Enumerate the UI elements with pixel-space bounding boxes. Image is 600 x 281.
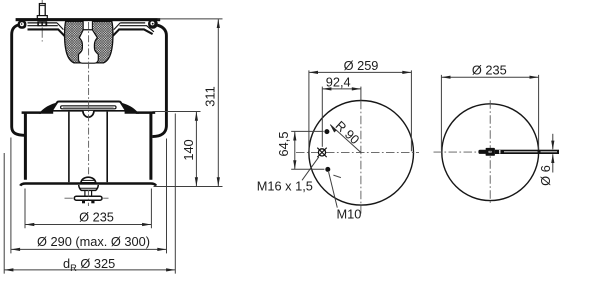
air fitting stud body	[39, 4, 45, 16]
piston top shoulder left	[22, 111, 41, 114]
piston bottom with end curls	[20, 184, 156, 186]
horizontal center line	[296, 151, 419, 153]
vertical center line	[489, 100, 491, 204]
boss slot center	[489, 151, 490, 152]
boss white slot	[489, 151, 492, 153]
svg-text:M10: M10	[337, 206, 362, 221]
arrow dR325 left	[4, 268, 13, 271]
dim line 140	[195, 112, 197, 187]
piston wall right	[149, 113, 152, 180]
dim line dia235 right view	[442, 76, 539, 78]
arrow 311 top	[217, 19, 220, 28]
bellows outer wall left	[12, 25, 26, 136]
rubber bumper (cross-hatched)	[65, 22, 113, 63]
bottom washer	[74, 196, 102, 200]
right bead of top plate	[148, 19, 158, 29]
stud nut below plate	[37, 21, 47, 26]
arrow dia290 right	[157, 248, 166, 251]
clamp ring upper line right	[120, 22, 145, 24]
bellows clamp wedge right	[120, 102, 139, 113]
svg-text:M16 x 1,5: M16 x 1,5	[257, 179, 313, 194]
arrow dia235 rv left	[441, 76, 450, 79]
right bead highlight	[150, 21, 154, 25]
arrow dia235 left	[25, 223, 34, 226]
dim line 64,5	[294, 132, 296, 170]
rod thread tick	[499, 150, 500, 154]
arrow 92,4 right	[352, 87, 361, 90]
ext lines 64,5	[291, 131, 324, 169]
piston inner column right	[106, 112, 108, 183]
arrow dR325 right	[166, 268, 175, 271]
dim line dia6 lower	[552, 154, 554, 172]
arrow dia235 rv right	[530, 76, 539, 79]
ext line top (311)	[158, 18, 223, 20]
piston top circle	[309, 101, 414, 206]
clamp ring lower line left	[28, 25, 58, 27]
M16 cross arms	[317, 148, 326, 157]
left bead highlight	[20, 22, 24, 26]
ext lines dia259	[309, 70, 412, 151]
boss mid line	[80, 187, 98, 189]
arrow dia6 top	[551, 141, 554, 150]
svg-text:Ø 6: Ø 6	[538, 165, 553, 186]
svg-text:311: 311	[203, 86, 218, 106]
bottom boss	[79, 185, 99, 191]
arrow 64,5 bottom	[293, 160, 296, 169]
girdle bar left	[28, 29, 65, 36]
M16 port symbol circle	[318, 149, 325, 156]
arrow R90	[330, 124, 337, 132]
piston inner column left	[68, 112, 70, 183]
svg-text:Ø 290 (max. Ø 300): Ø 290 (max. Ø 300)	[37, 234, 150, 249]
dim line 311	[217, 19, 219, 186]
bumper top notch	[83, 21, 92, 30]
horizontal center line	[434, 151, 478, 153]
dim line dia6 upper	[552, 134, 554, 150]
arrow 140 top	[195, 112, 198, 121]
svg-text:140: 140	[181, 139, 196, 160]
R90 radius line	[330, 125, 361, 153]
center line of air-fitting stud	[41, 0, 43, 3]
ext line 92,4 right (center)	[360, 87, 362, 101]
piston cap slot	[61, 106, 116, 109]
washer feet	[82, 200, 85, 203]
ext lines dia235	[25, 189, 151, 229]
arrow dia290 left	[11, 248, 20, 251]
left bead of top plate	[18, 20, 27, 29]
clamp ring lower line right	[120, 26, 154, 32]
cap bottom line	[52, 110, 126, 112]
ext lines dia290	[11, 138, 167, 254]
bumper inner spool (white)	[79, 30, 99, 63]
stud between boss and washer	[85, 191, 92, 196]
washer centerline ticks	[65, 197, 109, 199]
arrow 92,4 left	[322, 87, 331, 90]
bellows clamp wedge left	[39, 102, 58, 113]
nut slot right	[43, 22, 46, 25]
vertical center line	[360, 101, 362, 214]
rod center boss	[486, 148, 495, 156]
rod thread shading	[504, 151, 557, 153]
arrow dia259 left	[309, 71, 318, 74]
bolt dome chord line	[81, 179, 95, 181]
arrow dia6 bottom	[551, 154, 554, 163]
svg-text:Ø 235: Ø 235	[79, 210, 114, 225]
top plate bar	[16, 18, 161, 21]
bellows outer wall right	[152, 25, 166, 136]
air rod stub left	[478, 150, 486, 154]
dim line dR325	[5, 269, 176, 271]
piston cap hat	[52, 102, 126, 111]
svg-text:Ø 259: Ø 259	[344, 58, 379, 73]
clamp diagonal right-to-bumper	[114, 23, 120, 30]
arrow dia235 right	[142, 223, 151, 226]
stud cap line	[39, 5, 45, 7]
leader M16	[302, 157, 319, 181]
svg-text:Ø 235: Ø 235	[472, 62, 507, 77]
dim line dia290	[11, 248, 166, 250]
dim line dia259	[309, 71, 411, 73]
ext line 92,4 left	[321, 87, 323, 147]
arrow dia259 right	[402, 71, 411, 74]
arrow 64,5 top	[293, 131, 296, 140]
stud flange	[37, 16, 47, 19]
M10 hole upper (dot)	[324, 129, 329, 134]
ext line bottom (140/311)	[154, 186, 223, 188]
M10 hole lower (dot)	[325, 167, 330, 172]
svg-text:92,4: 92,4	[326, 74, 351, 89]
arrow 311 bottom	[217, 177, 220, 186]
bolt-circle tick near lower hole	[333, 175, 341, 178]
ext lines dR325	[4, 114, 175, 274]
slot interior line	[63, 106, 114, 108]
piston top shoulder right	[136, 111, 155, 114]
main vertical center line	[87, 22, 89, 206]
ext line piston top (140)	[153, 111, 201, 113]
stud center line below plate	[41, 27, 43, 41]
bottom bolt dome	[81, 177, 96, 183]
ext lines dia235 right view	[441, 75, 538, 150]
clamp ring upper line left	[28, 22, 58, 24]
clamp diagonal left-to-bumper	[57, 23, 63, 30]
dim line 92,4	[323, 88, 361, 90]
girdle bar right	[112, 29, 152, 36]
leader M10	[329, 172, 338, 208]
piston wall left	[24, 113, 27, 180]
nut slot left	[39, 22, 42, 25]
arrow 140 bottom	[195, 177, 198, 186]
piston bottom circle	[442, 104, 539, 201]
cap center dome (downward)	[83, 111, 94, 117]
svg-text:64,5: 64,5	[276, 132, 291, 157]
air rod	[495, 150, 559, 154]
dim line dia235	[25, 224, 151, 226]
